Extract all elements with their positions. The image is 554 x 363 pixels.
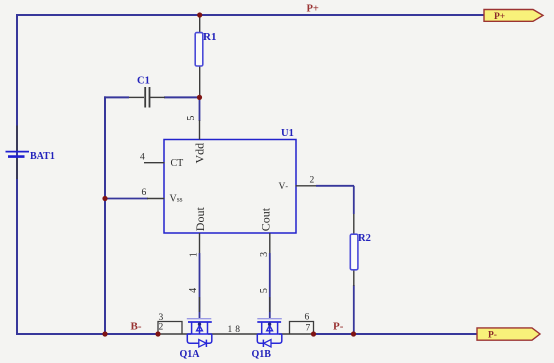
pin 3 Cout stub: [259, 207, 273, 257]
wire C1 left horizontal: [104, 96, 129, 98]
svg-text:6: 6: [305, 313, 310, 323]
svg-text:8: 8: [235, 325, 240, 335]
svg-text:R1: R1: [203, 31, 216, 43]
svg-text:7: 7: [306, 323, 311, 333]
pin 4 gate label Q1A: [188, 288, 200, 312]
pin 5 Vdd stub: [186, 116, 206, 164]
svg-text:Vss: Vss: [170, 194, 183, 205]
transistor Q1B: [252, 319, 282, 360]
svg-text:4: 4: [140, 153, 145, 163]
svg-text:4: 4: [188, 288, 199, 293]
wire mid pins 1,8: [208, 325, 262, 335]
pin 2 V- stub: [279, 175, 317, 192]
svg-text:BAT1: BAT1: [30, 151, 55, 162]
IC U1 protection controller: [164, 128, 296, 233]
wire bottom left segment: [16, 333, 158, 335]
junction R1/C1/Vdd: [197, 95, 202, 100]
svg-text:CT: CT: [171, 158, 184, 169]
battery BAT1: [6, 126, 55, 180]
wire C1 right horizontal: [164, 96, 200, 98]
junction B- staple: [155, 331, 160, 336]
svg-text:P+: P+: [307, 4, 319, 15]
wire bottom right segment: [314, 333, 478, 335]
wire top P+ rail: [17, 14, 484, 16]
svg-text:3: 3: [259, 252, 270, 257]
wire R2 bottom vertical: [353, 285, 355, 335]
svg-text:P-: P-: [333, 321, 344, 333]
junction Vss pin6: [102, 196, 107, 201]
junction right staple: [311, 331, 316, 336]
junction mid rail bottom: [102, 331, 107, 336]
svg-text:2: 2: [159, 323, 164, 333]
svg-text:1: 1: [188, 252, 199, 257]
svg-text:3: 3: [159, 313, 164, 323]
transistor Q1A: [180, 319, 212, 360]
wire Cout to Q1B gate: [269, 253, 271, 318]
power port P+ flag: [484, 10, 543, 22]
pin 5 gate label Q1B: [259, 288, 270, 312]
wire pin6 Vss horizontal: [105, 198, 148, 200]
svg-text:2: 2: [310, 175, 315, 185]
svg-text:Q1B: Q1B: [252, 349, 272, 360]
svg-text:1: 1: [228, 325, 233, 335]
wire R2 top vertical: [353, 186, 355, 214]
resistor R2: [350, 214, 371, 286]
svg-text:V-: V-: [279, 182, 289, 192]
wire pin5 Vdd stub blue: [199, 97, 201, 121]
svg-text:Vdd: Vdd: [192, 143, 206, 164]
resistor R1: [195, 14, 216, 97]
wire left vertical B- rail: [16, 14, 18, 335]
svg-text:5: 5: [186, 116, 197, 121]
svg-text:P-: P-: [488, 331, 497, 341]
wire Dout to Q1A gate: [199, 253, 201, 318]
svg-text:Q1A: Q1A: [180, 349, 201, 360]
svg-text:C1: C1: [137, 76, 150, 87]
capacitor C1: [129, 76, 165, 108]
wire pin2 V- horizontal: [316, 185, 354, 187]
svg-text:5: 5: [259, 288, 270, 293]
junction R2 bottom: [351, 331, 356, 336]
wire B- staple pins 2,3: [158, 313, 191, 334]
power port P- flag: [477, 328, 540, 341]
svg-text:Dout: Dout: [193, 207, 207, 232]
wire right staple pins 6,7: [279, 313, 314, 335]
wire mid vertical Vss net: [104, 96, 106, 335]
svg-text:R2: R2: [358, 233, 371, 244]
svg-text:B-: B-: [131, 321, 142, 333]
pin 4 CT stub: [140, 153, 183, 170]
svg-text:6: 6: [142, 188, 147, 198]
pin 1 Dout stub: [188, 207, 207, 258]
junction top R1: [197, 12, 202, 17]
svg-text:U1: U1: [281, 128, 294, 139]
pin 6 Vss stub: [142, 188, 183, 205]
svg-text:P+: P+: [494, 12, 505, 22]
svg-text:Cout: Cout: [259, 207, 273, 231]
